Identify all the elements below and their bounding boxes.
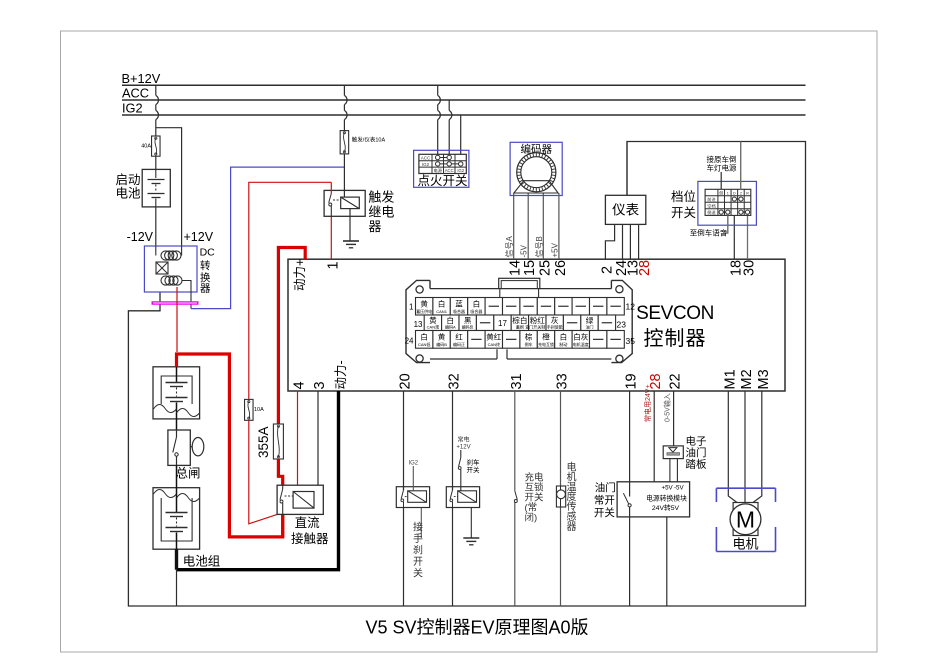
svg-text:蓄压供电: 蓄压供电 xyxy=(416,308,432,314)
svg-text:电源: 电源 xyxy=(434,167,443,174)
svg-text:转: 转 xyxy=(200,259,211,272)
svg-text:器: 器 xyxy=(368,219,381,234)
svg-text:总闸: 总闸 xyxy=(176,467,201,481)
svg-text:白: 白 xyxy=(438,299,446,309)
svg-text:CAN终: CAN终 xyxy=(488,341,500,347)
svg-text:启动: 启动 xyxy=(115,173,140,187)
svg-text:40A: 40A xyxy=(141,144,151,150)
svg-text:橙: 橙 xyxy=(542,332,550,342)
svg-text:ACC: ACC xyxy=(122,86,149,101)
svg-text:制动: 制动 xyxy=(559,341,567,347)
svg-text:23: 23 xyxy=(617,320,627,330)
svg-text:1: 1 xyxy=(727,191,729,195)
svg-text:开关: 开关 xyxy=(594,506,615,519)
svg-text:ACC: ACC xyxy=(445,168,454,173)
svg-text:电机: 电机 xyxy=(732,537,758,552)
svg-text:黄: 黄 xyxy=(438,332,446,342)
svg-text:刹: 刹 xyxy=(413,545,423,557)
svg-text:13: 13 xyxy=(414,320,423,329)
svg-text:手: 手 xyxy=(413,532,423,545)
svg-text:31: 31 xyxy=(509,373,525,389)
svg-text:35: 35 xyxy=(626,336,636,346)
svg-text:+5V: +5V xyxy=(662,485,674,492)
svg-text:IG2: IG2 xyxy=(408,461,418,467)
svg-text:25: 25 xyxy=(537,260,553,276)
svg-text:编码B: 编码B xyxy=(436,341,447,347)
svg-text:ACC: ACC xyxy=(421,156,431,161)
svg-text:CAN1: CAN1 xyxy=(436,309,447,314)
svg-text:信号A: 信号A xyxy=(504,236,514,258)
svg-text:1: 1 xyxy=(325,261,341,269)
svg-text:IG2: IG2 xyxy=(457,168,464,173)
svg-text:B+12V: B+12V xyxy=(122,71,161,86)
svg-text:R: R xyxy=(746,191,749,195)
svg-text:接触器: 接触器 xyxy=(291,531,329,546)
svg-text:动力+: 动力+ xyxy=(293,259,307,291)
svg-text:22: 22 xyxy=(668,373,684,389)
svg-text:触发: 触发 xyxy=(368,190,394,205)
svg-text:控制器: 控制器 xyxy=(644,327,707,350)
svg-text:M3: M3 xyxy=(756,369,772,389)
svg-text:油门: 油门 xyxy=(686,446,707,459)
svg-text:4: 4 xyxy=(292,381,308,389)
svg-text:19: 19 xyxy=(624,373,640,389)
svg-text:1: 1 xyxy=(409,303,414,312)
svg-text:关: 关 xyxy=(413,567,423,580)
svg-text:33: 33 xyxy=(555,373,571,389)
svg-text:12: 12 xyxy=(626,302,636,312)
svg-text:-5V: -5V xyxy=(520,244,529,257)
svg-text:触发/仪表10A: 触发/仪表10A xyxy=(352,136,386,144)
svg-text:白: 白 xyxy=(473,299,481,309)
svg-text:倒退: 倒退 xyxy=(707,209,716,216)
svg-text:至倒车语音: 至倒车语音 xyxy=(690,228,728,238)
svg-text:开: 开 xyxy=(413,557,423,568)
svg-text:动力-: 动力- xyxy=(334,360,348,389)
svg-text:白: 白 xyxy=(420,332,428,342)
svg-text:器: 器 xyxy=(200,283,211,295)
svg-text:黄红: 黄红 xyxy=(486,332,502,342)
svg-text:车灯电源: 车灯电源 xyxy=(707,163,737,173)
svg-text:常开: 常开 xyxy=(594,494,615,507)
svg-text:2: 2 xyxy=(740,191,742,195)
svg-text:DC: DC xyxy=(200,247,216,259)
svg-text:M1: M1 xyxy=(722,369,738,389)
svg-text:倒车: 倒车 xyxy=(525,341,533,347)
svg-text:白: 白 xyxy=(560,332,568,342)
svg-text:编码A: 编码A xyxy=(445,323,456,329)
svg-text:电池: 电池 xyxy=(115,187,141,201)
svg-text:-12V: -12V xyxy=(127,230,154,244)
svg-text:倒: 倒 xyxy=(719,190,723,195)
svg-text:直流: 直流 xyxy=(295,516,321,530)
svg-text:V5 SV控制器EV原理图A0版: V5 SV控制器EV原理图A0版 xyxy=(365,618,588,638)
svg-text:编码正: 编码正 xyxy=(453,341,465,347)
svg-text:2: 2 xyxy=(599,266,615,274)
svg-text:32: 32 xyxy=(447,373,463,389)
svg-text:-5V: -5V xyxy=(674,485,685,492)
svg-text:红: 红 xyxy=(455,332,463,342)
svg-text:SEVCON: SEVCON xyxy=(636,303,714,324)
svg-text:开关: 开关 xyxy=(467,465,481,474)
svg-text:档位: 档位 xyxy=(671,189,696,204)
svg-text:IG2: IG2 xyxy=(422,162,430,167)
svg-text:26: 26 xyxy=(553,260,569,276)
svg-text:白灰: 白灰 xyxy=(573,332,589,342)
svg-text:油门: 油门 xyxy=(595,481,616,494)
svg-text:点火开关: 点火开关 xyxy=(417,174,467,188)
svg-text:常电: 常电 xyxy=(457,436,469,444)
svg-text:蓝: 蓝 xyxy=(455,299,463,309)
svg-text:空档: 空档 xyxy=(707,203,715,210)
svg-text:CAN规: CAN规 xyxy=(427,323,439,329)
svg-text:充电互锁: 充电互锁 xyxy=(538,341,554,347)
svg-text:继电: 继电 xyxy=(368,205,394,220)
svg-text:电机温度: 电机温度 xyxy=(573,341,589,347)
svg-text:信号B: 信号B xyxy=(534,236,544,257)
svg-text:踏板: 踏板 xyxy=(686,458,707,471)
svg-text:前进: 前进 xyxy=(707,196,716,203)
svg-text:手刹使能: 手刹使能 xyxy=(547,323,563,329)
svg-text:吸合器: 吸合器 xyxy=(470,308,482,314)
svg-text:D: D xyxy=(733,191,736,195)
svg-text:24V转5V: 24V转5V xyxy=(652,503,680,512)
svg-text:M2: M2 xyxy=(739,369,755,389)
svg-text:刹车: 刹车 xyxy=(467,458,481,467)
svg-text:20: 20 xyxy=(398,373,414,389)
svg-text:电池组: 电池组 xyxy=(183,555,221,569)
svg-text:28: 28 xyxy=(637,260,653,276)
svg-text:355A: 355A xyxy=(256,426,271,458)
svg-text:CAN低: CAN低 xyxy=(418,341,430,347)
svg-text:+5V: +5V xyxy=(550,242,559,257)
svg-text:+12V: +12V xyxy=(184,230,214,244)
svg-text:吸合器: 吸合器 xyxy=(453,308,465,314)
svg-text:30: 30 xyxy=(742,260,758,276)
svg-text:开关: 开关 xyxy=(671,206,696,220)
svg-text:24: 24 xyxy=(405,337,414,346)
svg-text:+12V: +12V xyxy=(456,445,470,451)
svg-text:仪表: 仪表 xyxy=(612,203,640,218)
svg-text:油门: 油门 xyxy=(586,323,594,329)
svg-text:0-5V输入: 0-5V输入 xyxy=(662,393,671,422)
svg-text:M: M xyxy=(736,507,755,533)
svg-text:IG2: IG2 xyxy=(122,100,143,115)
svg-text:蓄刷: 蓄刷 xyxy=(516,323,524,329)
svg-text:编码负: 编码负 xyxy=(462,323,474,329)
svg-text:常电用24V+: 常电用24V+ xyxy=(643,384,652,422)
svg-text:3: 3 xyxy=(312,381,328,389)
svg-text:电子: 电子 xyxy=(686,435,707,448)
svg-text:接原车倒: 接原车倒 xyxy=(707,154,737,164)
svg-text:接: 接 xyxy=(413,521,423,534)
svg-text:棕: 棕 xyxy=(525,332,533,342)
svg-text:15: 15 xyxy=(522,260,538,276)
svg-text:黄: 黄 xyxy=(420,299,428,309)
svg-text:10A: 10A xyxy=(254,407,264,413)
svg-text:电源转换模块: 电源转换模块 xyxy=(646,494,687,503)
svg-text:闭): 闭) xyxy=(525,512,538,524)
svg-text:17: 17 xyxy=(498,319,507,328)
svg-text:器: 器 xyxy=(567,521,577,533)
